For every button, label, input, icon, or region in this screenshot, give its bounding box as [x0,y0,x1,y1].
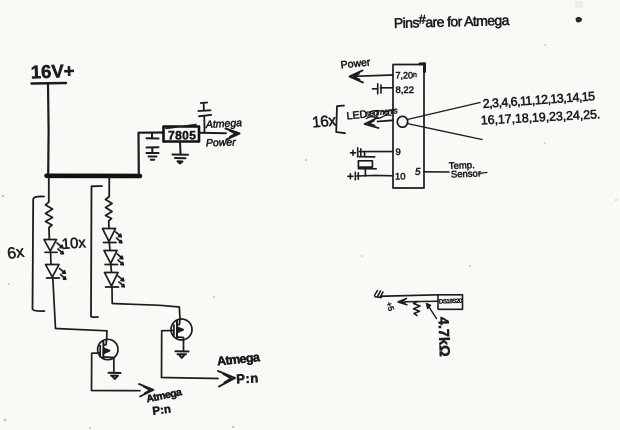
fanout line upper [407,103,480,120]
wire D1 to D2 [50,252,53,264]
IC U1 (Atmega) [393,65,424,189]
voltage regulator 7805 [164,125,200,143]
power terminal bar 16V+ [32,82,67,85]
LED D2 [46,265,66,280]
arrow (data, pointing left) [398,299,407,305]
ground (Q2 source) [176,351,189,358]
svg-text:16V+: 16V+ [30,60,75,83]
ink blob top right [576,17,583,23]
bracket (LED segments) [336,106,345,134]
arrow (to Atmega power) [226,129,240,140]
capacitor C2 (7805 output, polarized) [198,103,211,133]
ground (7805) [173,142,189,164]
MOSFET Q2 [171,319,192,351]
arrow (label to resistor) [427,304,437,319]
svg-text:DS18S20: DS18S20 [439,299,463,306]
svg-text:7805: 7805 [168,129,196,143]
wire pin 10 [357,174,393,177]
MOSFET Q1 [98,339,118,372]
LED D5 [105,273,125,288]
resistor (6x string) [46,202,53,239]
capacitor (pin 9) [351,148,361,157]
wire D3 to D4 [108,243,111,251]
ground (C1) [147,153,159,160]
resistor 4.7k [414,302,421,316]
wire pin 5 to temp sensor [424,171,449,173]
arrow (Atmega pin, Q2) [218,371,235,387]
svg-text:10: 10 [395,172,406,183]
crystal Y1 [358,152,376,176]
wire Q1 gate to Atmega pin [92,353,141,391]
arrow (LED segments, pointing left) [365,118,394,129]
svg-text:10x: 10x [61,234,87,253]
ground (Q1 source) [109,373,121,379]
wire D2 to Q1 drain [53,278,107,340]
wire bus to right LED string [108,177,110,197]
svg-text:Atmega: Atmega [205,117,243,131]
wire sensor data line [405,300,438,303]
wire Q2 gate to Atmega pin [162,331,219,379]
wire sensor top line [381,295,439,297]
bracket 10x [91,186,102,317]
wire pin 9 [360,151,394,153]
LED D1 [44,240,63,254]
wire D5 to Q2 drain [112,287,180,319]
wire 7805 output [199,132,226,135]
svg-text:8,22: 8,22 [396,85,415,96]
pin bubble (LED segments) [397,116,407,127]
svg-text:9: 9 [396,147,401,158]
LED D3 [103,229,122,243]
svg-text:Power: Power [206,136,237,149]
fanout line lower [407,124,482,140]
arrow (Atmega pin, Q1) [139,384,154,397]
svg-text:P:n: P:n [236,370,259,386]
capacitor (pin 10) [348,172,358,180]
wire D4 to D5 [110,265,113,273]
IC DS18S20 [438,295,463,310]
capacitor C1 (7805 input) [147,133,159,153]
resistor (10x string) [106,197,113,229]
wire bus up to 7805 input [139,133,164,175]
capacitor (pins 8,22) [373,84,394,94]
wire power pins to arrow [354,75,394,76]
ground (sensor circuit) [375,291,384,298]
svg-text:P:n: P:n [152,404,172,418]
LED D4 [104,251,123,265]
svg-text:Sensor: Sensor [451,168,481,180]
arrow (Power, pointing left) [350,71,364,83]
svg-text:4.7kΩ: 4.7kΩ [435,317,452,358]
svg-text:16x: 16x [311,112,337,131]
wire 16V+ down to bus [47,84,50,175]
bracket 6x [33,196,45,311]
svg-text:5: 5 [415,167,421,178]
power bus (thick) [47,174,141,179]
svg-text:6x: 6x [6,244,25,263]
wire bus to left LED string [48,177,50,202]
